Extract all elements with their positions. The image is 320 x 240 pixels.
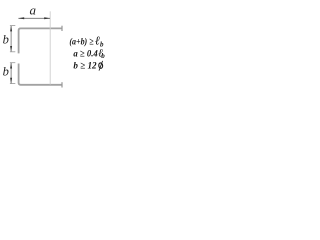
support face line xyxy=(49,11,51,84)
dimension b top line xyxy=(10,26,15,52)
svg-text:a: a xyxy=(29,3,36,18)
bar U1 top hook (horizontal leg with 90-degree bend down) xyxy=(19,28,63,53)
dimension b bottom line xyxy=(10,63,15,84)
formula line 3: b >= 12 dia xyxy=(73,61,103,72)
bar end tick top xyxy=(61,26,63,31)
svg-text:b: b xyxy=(3,65,9,79)
svg-text:b: b xyxy=(3,33,9,47)
svg-text:b ≥ 12: b ≥ 12 xyxy=(73,61,96,72)
label a xyxy=(29,3,36,18)
dimension a line xyxy=(18,17,50,19)
bar U2 bottom hook (vertical leg with 90-degree bend right) xyxy=(19,64,63,85)
bar end tick bottom xyxy=(61,82,63,87)
label b bottom xyxy=(3,65,9,79)
formula line 1: (a+b) >= lb xyxy=(69,34,104,49)
svg-text:b: b xyxy=(101,52,105,60)
formula line 2: a >= 0.4 lb xyxy=(73,47,105,59)
svg-text:a ≥ 0.4: a ≥ 0.4 xyxy=(73,48,98,59)
svg-text:(a+b) ≥: (a+b) ≥ xyxy=(69,36,93,47)
label b top xyxy=(3,33,9,47)
